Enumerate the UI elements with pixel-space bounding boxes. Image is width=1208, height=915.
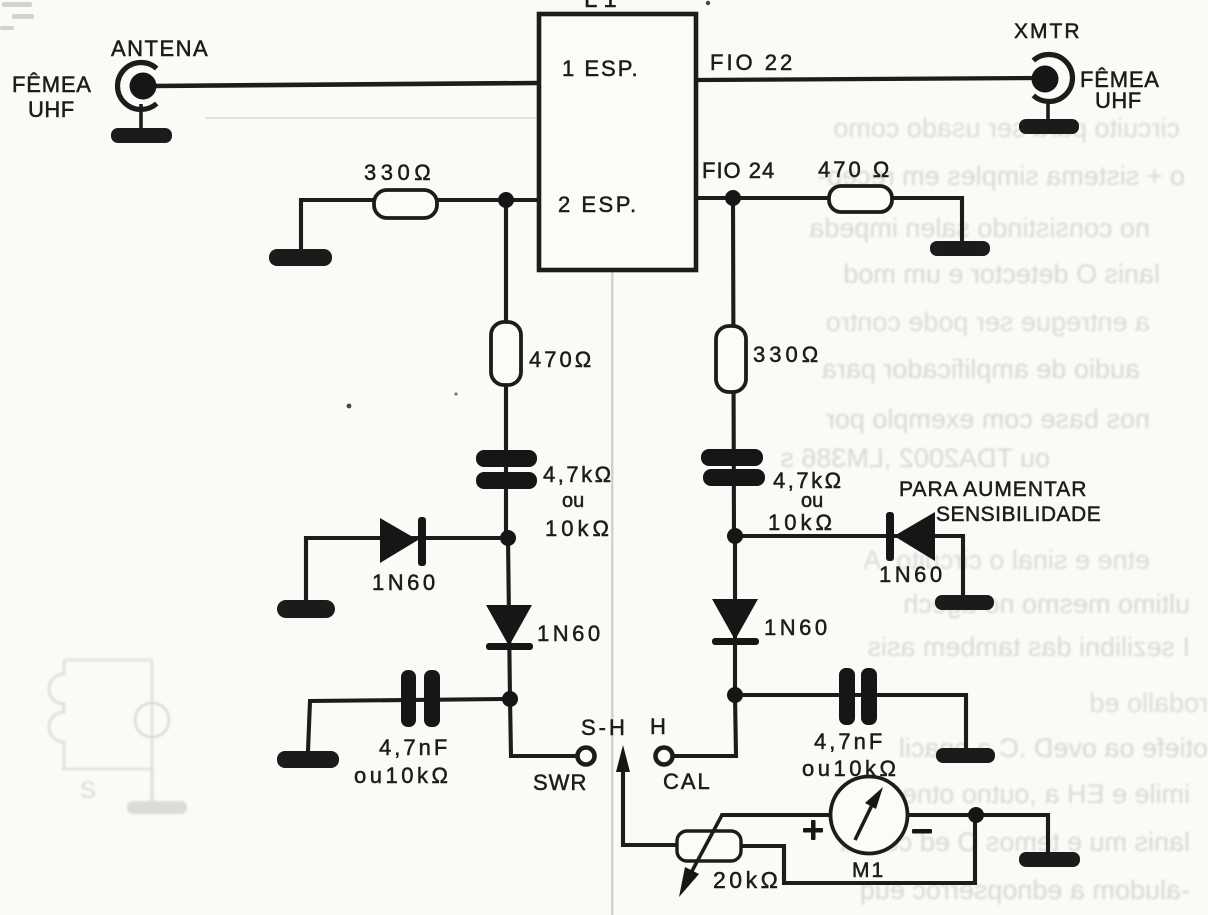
svg-text:S-H: S-H <box>581 715 628 740</box>
svg-text:circuito para ser usado como: circuito para ser usado como <box>833 113 1180 143</box>
svg-text:1N60: 1N60 <box>764 615 831 640</box>
resistor R4 330 ohm (vertical right) <box>716 326 746 392</box>
svg-text:1 ESP.: 1 ESP. <box>562 56 640 81</box>
svg-text:4,7nF: 4,7nF <box>814 729 885 754</box>
resistor R2 470 ohm (vertical) <box>491 322 521 385</box>
ground meter right <box>1019 852 1080 867</box>
wire: D3 branch right to ground <box>735 536 963 595</box>
wire: bottom-left capacitor branch to ground <box>308 699 503 751</box>
potentiometer 20k body <box>677 831 741 861</box>
wire: L1 pin2 left to 330 ohm and ground <box>301 200 539 249</box>
wire: meter plus left run <box>722 813 832 817</box>
wire: junction C down then right to SWR terminal <box>510 699 576 756</box>
svg-text:audio de amplificador para: audio de amplificador para <box>821 354 1140 384</box>
node D junction dot <box>725 190 741 206</box>
node F junction dot <box>727 687 743 703</box>
svg-text:FIO 24: FIO 24 <box>702 158 775 183</box>
svg-text:20kΩ: 20kΩ <box>713 867 781 893</box>
wire: junction F down then left to CAL terminal <box>674 695 736 756</box>
node E junction dot <box>727 528 743 544</box>
svg-text:a entregue ser pode contro: a entregue ser pode contro <box>826 307 1150 337</box>
transformer L1 box <box>539 14 696 270</box>
svg-text:rodallo ed: rodallo ed <box>1089 688 1208 718</box>
UHF female connector (XMTR) <box>1032 55 1073 102</box>
wire: S-H arrow stem and run to potentiometer <box>623 770 678 845</box>
speck <box>347 404 352 409</box>
svg-text:470 Ω: 470 Ω <box>818 157 892 182</box>
svg-text:SWR: SWR <box>533 770 587 795</box>
terminal CAL <box>656 748 673 765</box>
wire: L1 to XMTR <box>696 78 1042 80</box>
capacitor C2 4,7k/10k (right, horizontal plates) <box>701 449 765 486</box>
ground bottom-right capacitor <box>936 748 995 763</box>
svg-text:nos base com exemplo por: nos base com exemplo por <box>826 404 1150 434</box>
svg-text:imile e EH a ,outno otnem: imile e EH a ,outno otnema <box>863 779 1190 809</box>
wire: antenna to L1 <box>152 83 539 86</box>
meter M1 <box>831 777 908 854</box>
diode D4 1N60 (vertical, right) <box>712 599 759 645</box>
switch arrow (up) <box>616 745 630 772</box>
ground under antenna <box>139 104 143 131</box>
svg-text:H: H <box>650 714 666 739</box>
svg-text:ou: ou <box>801 490 823 512</box>
wire: pot right end down and along bottom to junction G <box>740 818 975 883</box>
svg-text:UHF: UHF <box>1095 88 1142 113</box>
svg-text:XMTR: XMTR <box>1014 20 1082 43</box>
svg-text:330Ω: 330Ω <box>364 160 435 185</box>
svg-text:ou: ou <box>562 490 584 512</box>
faint smudge top-left corner <box>0 2 34 30</box>
ground under D1 <box>277 600 335 618</box>
svg-text:470Ω: 470Ω <box>529 347 594 372</box>
faint rule (horizontal) <box>205 117 612 119</box>
faint bleed: coil figure lower-left <box>49 660 187 814</box>
ground under D3 <box>935 595 994 610</box>
plus sign <box>803 820 823 840</box>
capacitor C1 4,7k/10k (left, horizontal plates) <box>476 450 537 489</box>
wire: L1 pin2 right (FIO 24) through 470 ohm to ground <box>696 198 962 240</box>
svg-text:10kΩ: 10kΩ <box>768 510 836 535</box>
UHF female connector (antenna) <box>118 63 157 110</box>
svg-text:4,7kΩ: 4,7kΩ <box>543 462 614 487</box>
svg-text:M1: M1 <box>852 859 885 882</box>
ground under XMTR <box>1046 101 1050 122</box>
svg-text:S: S <box>80 777 96 804</box>
diode D2 1N60 (vertical, left) <box>486 605 533 650</box>
speck <box>706 1 710 5</box>
svg-text:I sezilibni das tambem a: I sezilibni das tambem asis <box>867 632 1190 662</box>
capacitor C4 4,7nF (bottom-right, vertical plates) <box>839 668 877 725</box>
ground right 470 ohm <box>930 241 990 256</box>
svg-text:ou10kΩ: ou10kΩ <box>802 756 899 781</box>
svg-text:no consistindo salen impeda: no consistindo salen impeda <box>808 213 1150 243</box>
svg-text:ANTENA: ANTENA <box>111 36 209 61</box>
node A junction dot <box>498 192 514 208</box>
ground bottom-left capacitor <box>277 751 339 768</box>
wire: bottom-right capacitor branch to ground <box>735 695 966 748</box>
wire: D1 branch left and to ground <box>306 538 501 600</box>
svg-text:L1: L1 <box>584 0 623 13</box>
svg-text:UHF: UHF <box>28 97 75 122</box>
wire: junction B down through D2 to junction C <box>508 538 510 699</box>
terminal SWR <box>578 748 595 765</box>
wire: meter minus to right ground <box>906 815 1048 852</box>
svg-text:SENSIBILIDADE: SENSIBILIDADE <box>936 503 1101 526</box>
svg-text:lanis O detector e um mod: lanis O detector e um mod <box>843 259 1160 289</box>
faint column rule (vertical) <box>611 114 614 915</box>
svg-text:1N60: 1N60 <box>879 562 946 587</box>
minus sign <box>912 829 932 834</box>
svg-text:PARA AUMENTAR: PARA AUMENTAR <box>899 478 1087 501</box>
diode D1 1N60 (horizontal, left) <box>380 517 426 566</box>
wire: left vertical chain from junction A down <box>504 200 508 540</box>
svg-text:1N60: 1N60 <box>537 621 604 646</box>
svg-text:10kΩ: 10kΩ <box>545 516 613 541</box>
speck <box>454 392 457 395</box>
svg-text:-aludom a ednopserroc euq: -aludom a ednopserroc euq <box>860 875 1190 905</box>
node C junction dot <box>502 691 518 707</box>
resistor R1 330 ohm (horizontal) <box>374 190 437 218</box>
node B junction dot <box>500 530 516 546</box>
svg-text:FÊMEA: FÊMEA <box>12 72 92 97</box>
bleed-through text from reverse page (faint, mirrored) <box>780 113 1208 905</box>
ground left 330 ohm <box>269 249 332 266</box>
capacitor C3 4,7nF (bottom-left, vertical plates) <box>401 670 440 727</box>
svg-text:FIO 22: FIO 22 <box>710 50 795 75</box>
diode D3 1N60 (horizontal, right, pointing left) <box>886 512 935 561</box>
svg-text:4,7nF: 4,7nF <box>379 735 450 760</box>
node G junction dot <box>968 807 984 823</box>
wire: right vertical chain junction D down <box>733 198 734 538</box>
svg-text:2 ESP.: 2 ESP. <box>558 192 639 217</box>
svg-text:330Ω: 330Ω <box>753 342 822 367</box>
potentiometer wiper arrow <box>684 815 722 886</box>
ink layer <box>152 78 1048 883</box>
svg-text:1N60: 1N60 <box>372 570 439 595</box>
svg-text:CAL: CAL <box>663 769 712 794</box>
wire: D4 chain down to junction F <box>733 536 737 695</box>
resistor R3 470 ohm (horizontal right) <box>829 186 892 212</box>
svg-text:ou10kΩ: ou10kΩ <box>354 763 451 788</box>
